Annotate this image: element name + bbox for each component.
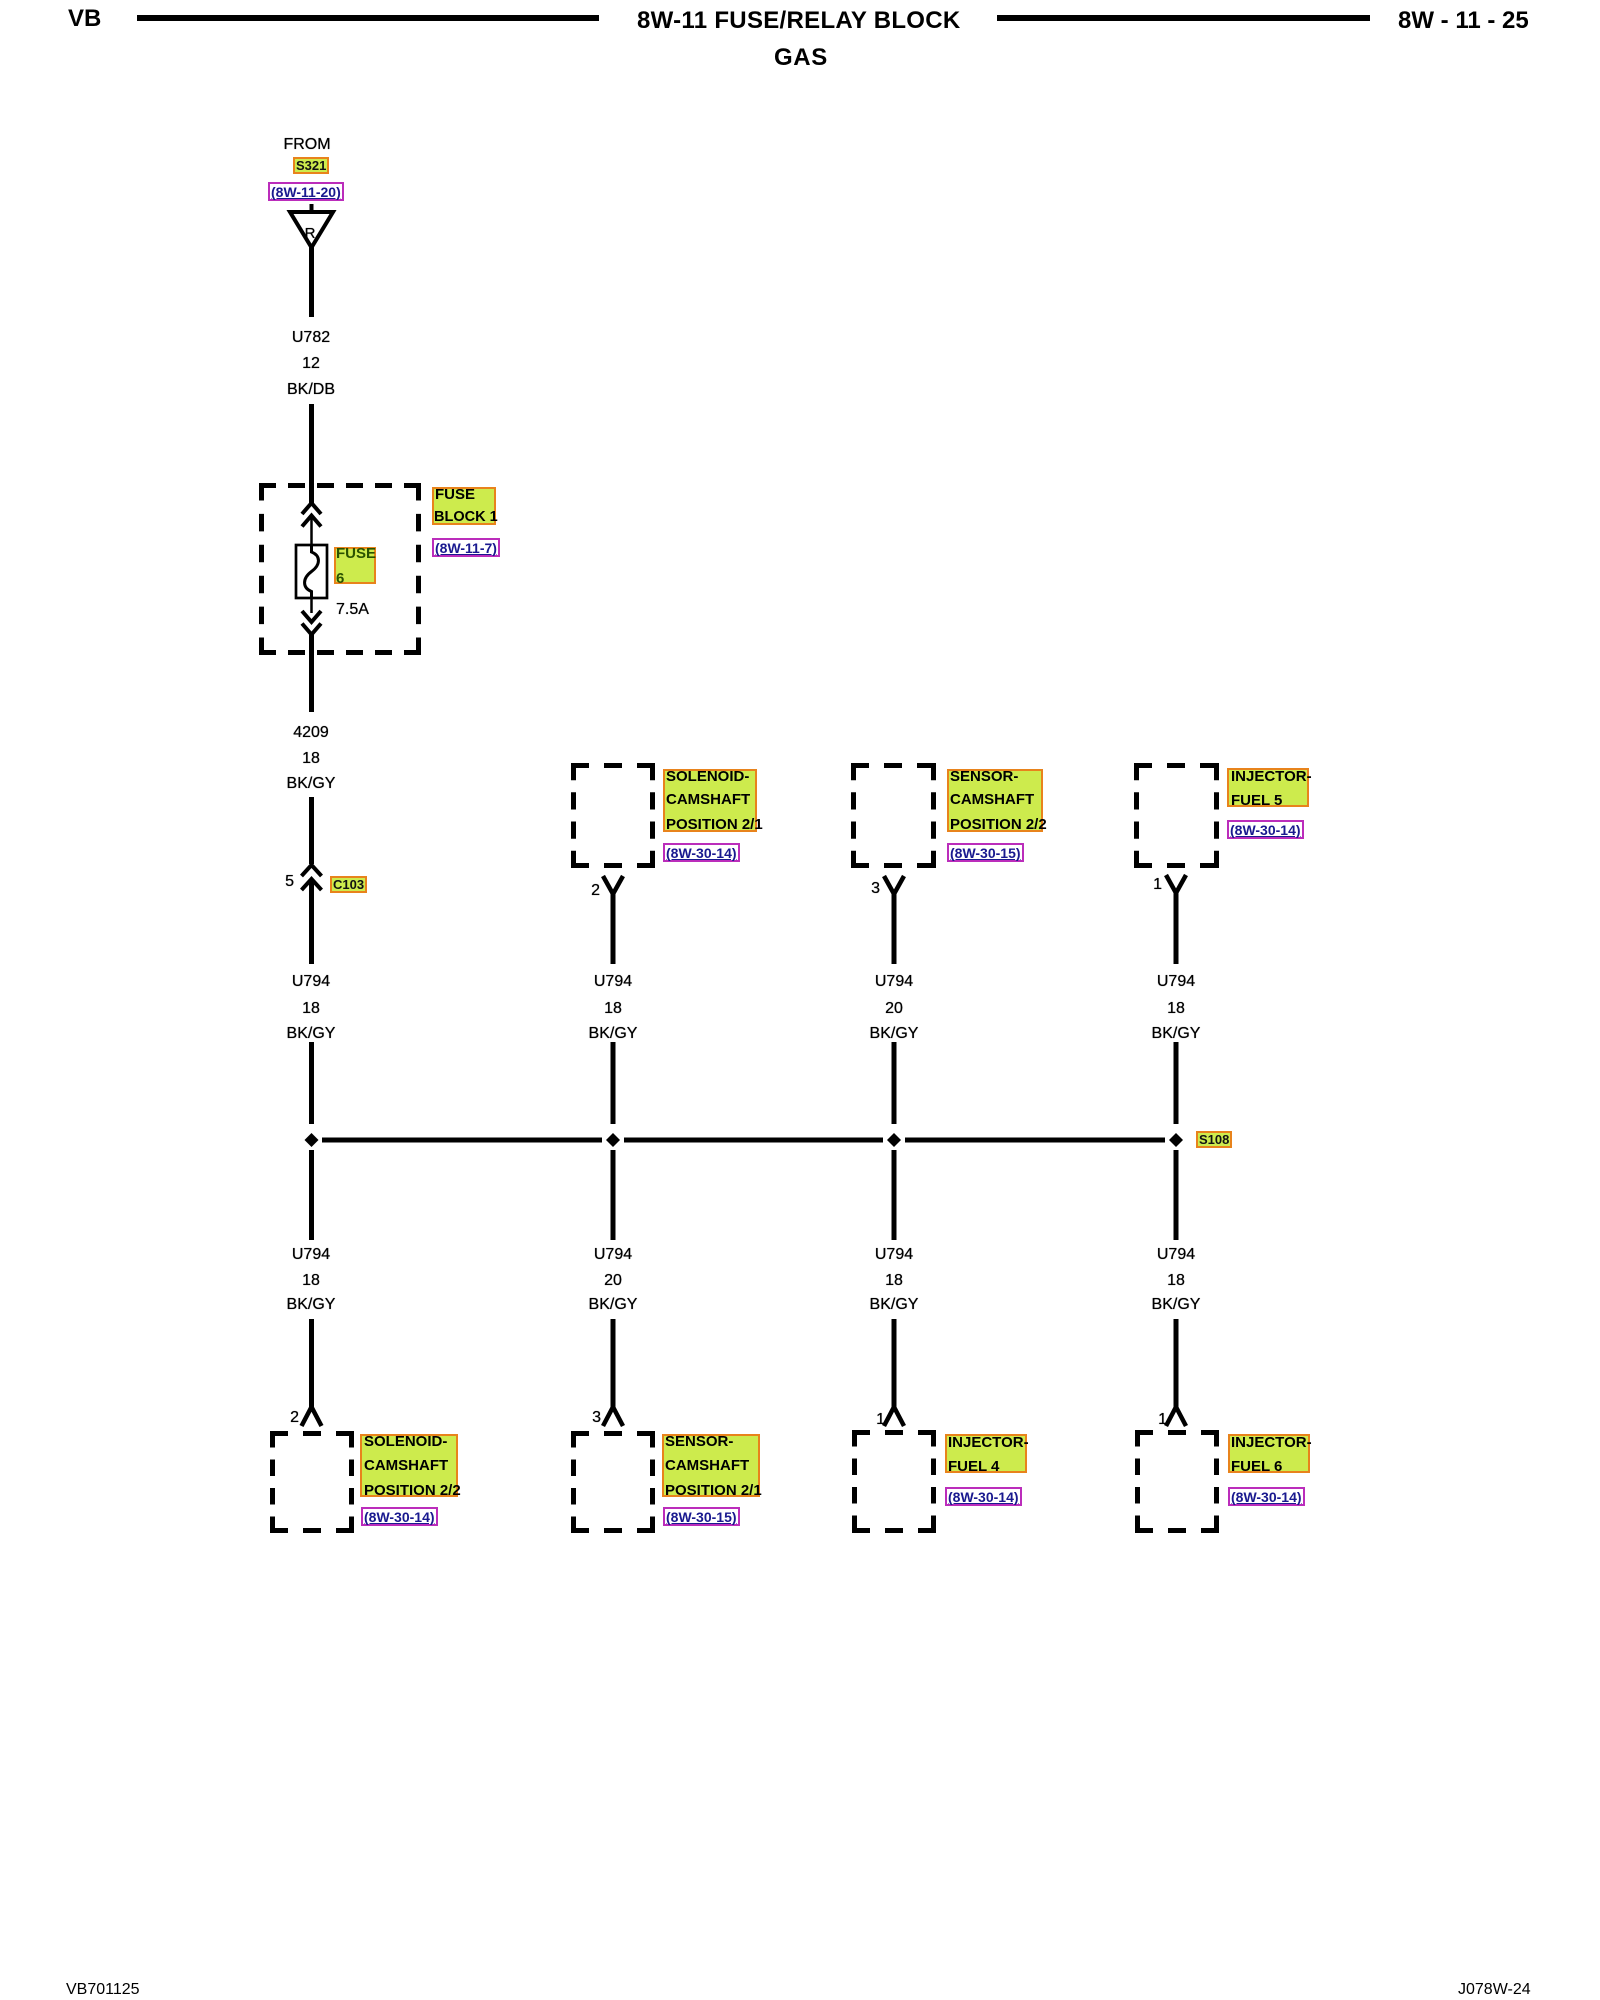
pin number 2 bottom col1 (269, 1410, 299, 1426)
node S321 tag (293, 157, 329, 174)
splice S108 tag (1196, 1131, 1232, 1148)
pin number 5 at C103 (264, 874, 294, 890)
wire 4209 18 BK/GY upper segment (309, 634, 314, 712)
pin 1 fork injector-fuel 6 (1166, 1407, 1186, 1426)
wire label BK/GY col4 upper (1096, 1026, 1256, 1042)
wire U794 18 BK/GY col4 bottom segment (1174, 1319, 1179, 1409)
wire 4209 18 BK/GY lower segment (309, 797, 314, 864)
wire col2 below bus (611, 1150, 616, 1240)
pin number 1 bottom col4 (1137, 1412, 1167, 1428)
wire label U794 col1 lower (231, 1247, 391, 1263)
fuse block 1 dashed outline (259, 483, 421, 655)
link 8W-11-7 (432, 538, 500, 557)
connector C103 tag (330, 876, 367, 893)
link 8W-30-15 bottom col2 (663, 1507, 740, 1526)
wire label 18 col1 lower (231, 1273, 391, 1289)
wire fuse internal lower (310, 598, 313, 613)
wire U794 18 BK/GY col1 to bus (309, 1042, 314, 1124)
wire label U782 (231, 330, 391, 346)
fuse 6 label (334, 547, 376, 584)
connector C103 chevrons pin 5 (302, 865, 322, 890)
footer sheet code VB701125 (66, 1981, 140, 1999)
wire label U794 col3 lower (814, 1247, 974, 1263)
header rule right (997, 15, 1370, 21)
wire U794 18 BK/GY col2 upper segment (611, 892, 616, 964)
component label sensor-camshaft position 2/1 (662, 1434, 760, 1497)
link 8W-11-20 (268, 182, 344, 201)
wire label BK/GY col3 upper (814, 1026, 974, 1042)
pin 1 fork injector-fuel 4 (884, 1407, 904, 1426)
wire U794 18 BK/GY col1 upper segment (309, 880, 314, 964)
wire label BK/GY col3 lower (814, 1297, 974, 1313)
node label FROM (227, 137, 387, 153)
pin number 2 top col2 (570, 883, 600, 899)
wire U794 20 BK/GY col3 upper segment (892, 892, 897, 964)
wire label 18 col3 lower (814, 1273, 974, 1289)
wire label BK/GY col4 lower (1096, 1297, 1256, 1313)
wire label 18 col4 upper (1096, 1001, 1256, 1017)
sensor-camshaft position 2/1 dashed box (571, 1431, 655, 1533)
pin number 3 top col3 (850, 881, 880, 897)
wire label BK/GY col2 upper (533, 1026, 693, 1042)
component label injector-fuel 4 (945, 1434, 1027, 1473)
wire label BK/GY col2 lower (533, 1297, 693, 1313)
junction S108 diamond col1 (305, 1133, 319, 1147)
wire label U794 col3 upper (814, 974, 974, 990)
wire label U794 col4 upper (1096, 974, 1256, 990)
wire col4 below bus (1174, 1150, 1179, 1240)
link 8W-30-14 top col4 (1227, 820, 1304, 839)
wire label 18 col1 upper (231, 1001, 391, 1017)
link 8W-30-14 bottom col4 (1228, 1487, 1305, 1506)
pin 3 fork sensor-camshaft position 2/1 (603, 1407, 623, 1426)
wire label BK/GY (231, 776, 391, 792)
wire col3 below bus (892, 1150, 897, 1240)
injector-fuel 4 dashed box (852, 1430, 936, 1533)
wire U794 18 BK/GY col4 to bus (1174, 1042, 1179, 1124)
link 8W-30-14 bottom col3 (945, 1487, 1022, 1506)
component label solenoid-camshaft position 2/1 (663, 769, 757, 832)
wire U794 18 BK/GY col4 upper segment (1174, 891, 1179, 964)
wire label U794 col2 lower (533, 1247, 693, 1263)
pin 3 fork sensor-camshaft position 2/2 (884, 876, 904, 894)
injector-fuel 5 dashed box top (1134, 763, 1219, 868)
junction S108 diamond col3 (887, 1133, 901, 1147)
node S321 triangle symbol (290, 204, 333, 248)
wire U794 18 BK/GY col2 to bus (611, 1042, 616, 1124)
junction S108 diamond col4 (1169, 1133, 1183, 1147)
wire label BK/GY col1 upper (231, 1026, 391, 1042)
wire label 18 col2 upper (533, 1001, 693, 1017)
header rule left (137, 15, 599, 21)
fuse block entry connector chevrons (302, 503, 321, 527)
wire label 18 (231, 751, 391, 767)
fuse rating 7.5A (271, 602, 496, 618)
injector-fuel 6 dashed box (1135, 1430, 1219, 1533)
bus wire segment 2 (624, 1138, 883, 1143)
wire U794 20 BK/GY col3 to bus (892, 1042, 897, 1124)
wire col1 below bus (309, 1150, 314, 1240)
wire label 20 col3 upper (814, 1001, 974, 1017)
component label injector-fuel 6 (1228, 1434, 1310, 1473)
wire label BK/DB (231, 382, 391, 398)
wire U794 18 BK/GY col1 bottom segment (309, 1319, 314, 1409)
junction S108 diamond col2 (606, 1133, 620, 1147)
wire label 18 col4 lower (1096, 1273, 1256, 1289)
wire label U794 col2 upper (533, 974, 693, 990)
bus wire segment 3 (905, 1138, 1165, 1143)
bus wire segment 1 (322, 1138, 602, 1143)
wire U782 12 BK/DB upper segment (309, 246, 314, 317)
solenoid-camshaft position 2/1 dashed box top (571, 763, 655, 868)
component label sensor-camshaft position 2/2 (947, 769, 1043, 832)
wire fuse internal upper (310, 517, 313, 546)
solenoid-camshaft position 2/2 dashed box (270, 1431, 354, 1533)
page header subtitle GAS (774, 46, 828, 70)
pin 2 fork solenoid-camshaft position 2/1 (603, 876, 623, 894)
wire U794 20 BK/GY col2 bottom segment (611, 1319, 616, 1409)
pin number 1 top col4 (1132, 877, 1162, 893)
pin 1 fork injector-fuel 5 (1166, 875, 1186, 893)
component label solenoid-camshaft position 2/2 (360, 1434, 458, 1497)
fuse F6 symbol (296, 545, 327, 598)
wire label U794 col1 upper (231, 974, 391, 990)
wire label 4209 (231, 725, 391, 741)
page number 8W - 11 - 25 (1398, 9, 1529, 33)
fuse block exit connector chevrons (302, 611, 321, 635)
triangle letter R (230, 226, 390, 242)
page header title 8W-11 FUSE/RELAY BLOCK (637, 9, 961, 33)
sensor-camshaft position 2/2 dashed box top (851, 763, 936, 868)
page header title VB (68, 7, 101, 31)
fuse block 1 label (432, 487, 496, 525)
wire label BK/GY col1 lower (231, 1297, 391, 1313)
link 8W-30-14 top col2 (663, 843, 740, 862)
wire U794 18 BK/GY col3 bottom segment (892, 1319, 897, 1409)
wire label 12 (231, 356, 391, 372)
link 8W-30-14 bottom col1 (361, 1507, 438, 1526)
pin 2 fork solenoid-camshaft position 2/2 (302, 1407, 322, 1426)
pin number 3 bottom col2 (571, 1410, 601, 1426)
component label injector-fuel 5 (1227, 768, 1309, 807)
wire U782 12 BK/DB lower segment (309, 404, 314, 503)
wire label 20 col2 lower (533, 1273, 693, 1289)
footer drawing code J078W-24 (1458, 1981, 1531, 1999)
pin number 1 bottom col3 (855, 1412, 885, 1428)
wire label U794 col4 lower (1096, 1247, 1256, 1263)
link 8W-30-15 top col3 (947, 843, 1024, 862)
